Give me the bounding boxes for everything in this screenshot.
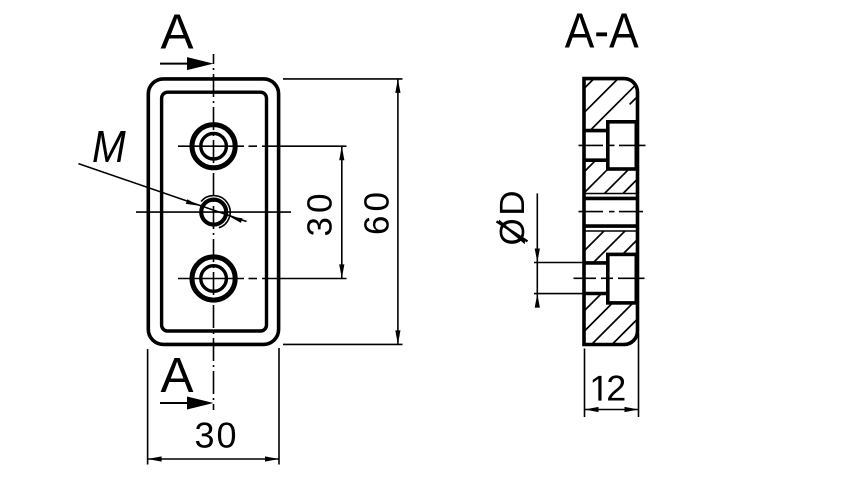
svg-text:A: A [160, 5, 193, 60]
svg-text:A-A: A-A [565, 4, 639, 59]
svg-text:A: A [160, 348, 193, 403]
svg-text:30: 30 [195, 414, 237, 455]
svg-text:2: 2 [606, 368, 626, 409]
